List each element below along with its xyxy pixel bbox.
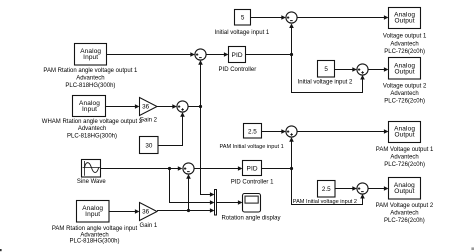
svg-text:Input: Input — [83, 54, 98, 61]
wire U3 to gain G2 — [106, 104, 140, 109]
svg-text:Sine Wave: Sine Wave — [77, 179, 106, 185]
svg-text:Voltage output 1: Voltage output 1 — [383, 34, 427, 40]
wire sum F to AO3 — [297, 129, 388, 134]
label SC1: Rotation angle display — [221, 215, 280, 221]
wire U4 output to junction J4 — [262, 168, 292, 170]
wire sum A to PID controller — [206, 52, 228, 57]
svg-text:Output: Output — [394, 68, 414, 75]
wire J4 up to sum F bottom — [289, 137, 294, 168]
svg-text:PAM Rtation angle voltage outp: PAM Rtation angle voltage output 1 — [43, 68, 138, 74]
label K1: Initial voltage input 1 — [215, 30, 270, 36]
wire J2 down and right to mux input 1 — [201, 107, 215, 197]
svg-text:PAM Voltage output 2: PAM Voltage output 2 — [376, 203, 434, 209]
svg-text:36: 36 — [142, 209, 150, 216]
label V3: PAM Voltage output 1 / Advantech / PLC-726(2c0h) — [376, 147, 434, 168]
svg-text:Initial voltage input 2: Initial voltage input 2 — [298, 80, 353, 86]
sum B — [286, 12, 297, 23]
block V3 Analog Output 3 — [389, 122, 421, 143]
svg-text:Input: Input — [85, 211, 100, 218]
wire J2 up to sum A bottom — [198, 60, 203, 106]
svg-text:PLC-818HG(300h): PLC-818HG(300h) — [65, 83, 115, 89]
wire G1 to mux input 3 — [157, 208, 215, 213]
wire sum C to AO2 — [368, 67, 388, 72]
wire K3 to sum D bottom — [158, 112, 185, 145]
junction J3 — [168, 167, 171, 170]
junction J4 — [290, 167, 293, 170]
wire U2 output to junction J1 — [246, 54, 292, 56]
svg-text:PLC-726(2c0h): PLC-726(2c0h) — [384, 218, 425, 224]
block U3 Analog Input 2 — [73, 96, 106, 117]
wire sum E to PID Controller 1 — [194, 166, 242, 171]
wire J4 down and right to sum G bottom — [292, 169, 365, 205]
junction J5 — [187, 209, 190, 212]
scope SC1 Rotation angle display — [243, 194, 261, 213]
svg-text:PID Controller 1: PID Controller 1 — [231, 179, 274, 185]
wire sum D to junction J2 — [188, 106, 200, 108]
svg-text:Rotation angle display: Rotation angle display — [221, 215, 280, 221]
svg-text:Output: Output — [394, 132, 414, 139]
block K3 Constant 30 — [140, 137, 159, 154]
svg-text:Advantech: Advantech — [390, 41, 418, 47]
svg-text:PID Controller: PID Controller — [219, 67, 257, 73]
wire J1 up to sum B bottom — [289, 23, 294, 54]
svg-text:PLC-818HG(300h): PLC-818HG(300h) — [69, 239, 119, 245]
block U2 PID Controller — [229, 47, 246, 63]
junction J2 — [199, 105, 202, 108]
svg-text:36: 36 — [142, 104, 150, 111]
svg-text:Output: Output — [394, 18, 414, 25]
wire K2 to sum C — [335, 67, 357, 72]
label U5: PAM Rtation angle voltage input / Advantech / PLC-818HG(300h) — [52, 226, 138, 245]
label V1: Voltage output 1 / Advantech / PLC-726(2c0h) — [383, 34, 427, 56]
svg-text:Advantech: Advantech — [76, 75, 104, 81]
svg-text:Advantech: Advantech — [390, 211, 418, 217]
block S1 Sine Wave — [82, 160, 101, 178]
wire U5 to gain G1 — [109, 209, 140, 214]
svg-text:2.5: 2.5 — [248, 128, 257, 135]
wire S1 to sum E — [101, 166, 183, 171]
svg-text:Output: Output — [394, 188, 414, 195]
svg-text:Voltage output 2: Voltage output 2 — [383, 84, 427, 90]
svg-text:Gain 2: Gain 2 — [139, 118, 157, 124]
label S1: Sine Wave — [77, 179, 106, 185]
svg-text:PID: PID — [246, 166, 257, 173]
svg-text:Gain 1: Gain 1 — [140, 223, 158, 229]
block V4 Analog Output 4 — [389, 178, 421, 200]
wire sum B to AO1 — [297, 15, 388, 20]
border remnant bottom-right — [471, 247, 474, 250]
sum D — [177, 101, 188, 112]
label G1: Gain 1 — [140, 223, 158, 229]
wire U1 to sum A — [107, 52, 195, 57]
label G2: Gain 2 — [139, 118, 157, 124]
sum F — [286, 126, 297, 137]
sum G — [357, 183, 368, 194]
label U3: WHAM Rtation angle voltage output 2 / Advantech / PLC-818HG(300h) — [42, 119, 143, 139]
block K4 Constant 2.5 (PAM Initial voltage input 1) — [244, 124, 262, 139]
svg-text:PAM Initial voltage input 1: PAM Initial voltage input 1 — [219, 144, 283, 150]
svg-text:PLC-818HG(300h): PLC-818HG(300h) — [67, 133, 117, 139]
sum A — [195, 49, 206, 60]
svg-text:PLC-726(2c0h): PLC-726(2c0h) — [384, 49, 425, 55]
svg-text:2.5: 2.5 — [322, 186, 331, 193]
label K4: PAM Initial voltage input 1 — [219, 144, 283, 150]
svg-text:Input: Input — [82, 106, 97, 113]
svg-text:PID: PID — [231, 52, 242, 59]
border remnant bottom-left — [0, 249, 2, 251]
svg-text:Advantech: Advantech — [390, 155, 418, 161]
block K5 Constant 2.5 (PAM Initial voltage input 2) — [318, 181, 336, 198]
label U1: PAM Rtation angle voltage output 1 / Advantech / PLC-818HG(300h) — [43, 68, 138, 89]
wire J1 down and right to sum C bottom — [292, 55, 365, 93]
block U1 Analog Input 1 — [75, 44, 107, 66]
block U5 Analog Input 3 — [77, 201, 110, 223]
svg-text:Advantech: Advantech — [390, 91, 418, 97]
svg-text:Advantech: Advantech — [78, 126, 106, 132]
svg-text:PLC-726(2c0h): PLC-726(2c0h) — [384, 162, 425, 168]
svg-text:30: 30 — [145, 143, 153, 150]
wire J3 down and right to mux input 2 — [170, 169, 215, 205]
block K2 Constant 5 (Initial voltage input 2) — [318, 61, 335, 78]
block V1 Analog Output 1 — [389, 8, 421, 29]
wire K4 to sum F — [262, 129, 286, 134]
label U2: PID Controller — [219, 67, 257, 73]
mux M1 — [215, 190, 217, 216]
block K1 Constant 5 (Initial voltage input 1) — [235, 10, 251, 26]
wire K1 to sum B — [251, 15, 286, 20]
sum E — [183, 163, 194, 174]
gain G2 (36) — [140, 98, 158, 116]
block V2 Analog Output 2 — [389, 58, 421, 80]
svg-text:PLC-726(2c0h): PLC-726(2c0h) — [384, 98, 425, 104]
junction J1 — [290, 53, 293, 56]
sum C — [357, 64, 368, 75]
svg-text:5: 5 — [324, 66, 328, 73]
svg-text:WHAM Rtation angle voltage out: WHAM Rtation angle voltage output 2 — [42, 119, 143, 125]
svg-text:PAM Voltage output 1: PAM Voltage output 1 — [376, 147, 434, 153]
wire G2 to sum D — [157, 104, 177, 109]
label V2: Voltage output 2 / Advantech / PLC-726(2c0h) — [383, 84, 427, 105]
svg-text:Initial voltage input 1: Initial voltage input 1 — [215, 30, 270, 36]
block U4 PID Controller 1 — [243, 161, 262, 176]
label U4: PID Controller 1 — [231, 179, 274, 185]
wire M1 to scope — [217, 200, 243, 205]
label K5: PAM Initial voltage input 2 — [293, 199, 357, 205]
label K2: Initial voltage input 2 — [298, 80, 353, 86]
gain G1 (36) — [140, 203, 158, 221]
wire sum G to AO4 — [368, 186, 388, 191]
svg-text:5: 5 — [241, 15, 245, 22]
wire K5 to sum G — [335, 186, 357, 191]
svg-text:PAM Initial voltage input 2: PAM Initial voltage input 2 — [293, 199, 357, 205]
svg-text:PAM Rtation angle voltage inpu: PAM Rtation angle voltage input — [52, 226, 138, 232]
label V4: PAM Voltage output 2 / Advantech / PLC-726(2c0h) — [376, 203, 434, 224]
wire J5 up to sum E bottom — [186, 174, 191, 210]
